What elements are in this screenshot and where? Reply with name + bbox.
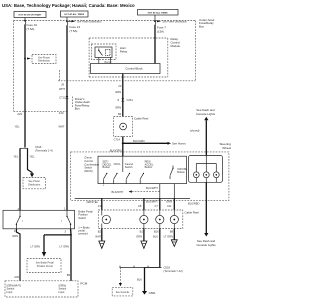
svg-text:Input: Input: [59, 290, 65, 294]
power label HOT AT ALL TIMES (left): [61, 11, 89, 17]
node: B pin labels: [95, 229, 173, 238]
svg-text:BLU/WHT: BLU/WHT: [146, 186, 158, 190]
node: driver's under-dash fuse/relay box label: [75, 97, 90, 111]
svg-text:(closed): (closed): [190, 129, 200, 133]
svg-text:Console Lights: Console Lights: [196, 112, 216, 116]
title: [2, 3, 135, 8]
svg-text:B16: B16: [154, 229, 159, 233]
horn switch pad S2: [189, 156, 223, 183]
svg-text:Console Lights: Console Lights: [196, 243, 216, 247]
node: brake pedal position switch label: [78, 210, 93, 236]
wire: C316 terminal to ref arrow: [28, 148, 36, 177]
svg-text:(15A): (15A): [157, 29, 164, 33]
switch SW2: [114, 173, 118, 184]
node: combination switch label: [84, 156, 99, 174]
node: under-hood fuse/relay box label: [199, 18, 215, 28]
switch SW4: [140, 173, 144, 184]
svg-text:GRN: GRN: [115, 105, 121, 109]
svg-text:USA: Base, Technology Package;: USA: Base, Technology Package; Hawaii; C…: [2, 3, 135, 8]
svg-text:Chime: Chime: [84, 156, 92, 160]
wire: brake switch 6 GRN to PCM: [12, 229, 20, 281]
wire: B2 out with arrow: [99, 229, 105, 249]
wire: brake switch 3 LT GRN to PCM: [31, 229, 72, 281]
svg-text:C714: C714: [114, 138, 121, 142]
horn button B1: [193, 172, 199, 182]
wire: B1 out with arrow: [141, 229, 147, 249]
svg-text:GRN: GRN: [166, 199, 172, 203]
svg-text:(Terminals 1-4): (Terminals 1-4): [35, 148, 53, 152]
wire: feed into switch box: [122, 156, 124, 172]
svg-text:(7.5A): (7.5A): [27, 27, 35, 31]
wire: BLK to ground: [137, 268, 160, 292]
svg-text:Control Block: Control Block: [125, 67, 143, 71]
svg-text:G501: G501: [149, 291, 156, 295]
svg-text:Position Circuit: Position Circuit: [37, 265, 53, 268]
svg-text:B8: B8: [170, 229, 174, 233]
node: see power distribution ref (lower): [23, 178, 46, 189]
svg-text:Switch: Switch: [84, 166, 92, 170]
control block U1: [91, 64, 161, 74]
svg-text:Cable Reel: Cable Reel: [185, 211, 200, 215]
svg-text:HOT AT ALL TIMES: HOT AT ALL TIMES: [148, 11, 168, 14]
switch: brake pedal sw B: [61, 210, 71, 229]
wire: fuse 7 down to control block: [154, 25, 156, 64]
svg-text:WHT: WHT: [95, 235, 101, 239]
wire: BLU/RED to see dash and console lights: [196, 182, 216, 247]
reel ring R2: [140, 210, 148, 229]
wire: B16 BLK down to C503: [159, 229, 161, 268]
svg-text:C8: C8: [138, 204, 142, 208]
svg-text:See Grounds: See Grounds: [116, 291, 130, 294]
svg-text:B1: B1: [140, 229, 144, 233]
cable reel (upper): [114, 117, 149, 137]
wire: control block pin 20 GRN down: [115, 74, 133, 117]
node: see dash and console lights (upper): [190, 108, 216, 155]
svg-text:WHT: WHT: [59, 87, 65, 91]
wire: C11 into cable reel: [173, 198, 175, 210]
svg-text:Button: Button: [145, 165, 153, 169]
svg-text:See Brake Pedal: See Brake Pedal: [36, 262, 54, 265]
wire: C7 into cable reel: [159, 198, 161, 210]
svg-text:PCM: PCM: [80, 282, 87, 286]
svg-text:Module: Module: [171, 44, 181, 48]
svg-text:See Power Distribution: See Power Distribution: [77, 21, 102, 24]
node: relay control module label: [171, 37, 181, 48]
svg-text:K10: K10: [59, 111, 64, 115]
svg-text:Distribution: Distribution: [38, 60, 51, 63]
svg-text:LT GRN: LT GRN: [164, 234, 174, 238]
wire: cable reel out to horns junction: [110, 137, 186, 157]
brake pedal position switch: [3, 210, 75, 229]
wire: B8 out with arrow: [171, 229, 177, 247]
svg-text:Switch: Switch: [78, 216, 86, 220]
connector C503 terminal bar: [120, 265, 183, 273]
svg-text:C11: C11: [167, 204, 172, 208]
reel ring R1: [102, 210, 111, 229]
relay: horn relay: [92, 44, 128, 64]
svg-text:20: 20: [118, 84, 121, 88]
svg-text:BLK/WHT: BLK/WHT: [112, 190, 124, 194]
relay control module dashed box: [89, 38, 168, 77]
svg-text:B9: B9: [67, 273, 71, 277]
power label HOT AT ALL TIMES (right): [138, 10, 179, 16]
svg-text:See Power Distribution: See Power Distribution: [163, 21, 188, 24]
svg-text:Switch: Switch: [125, 165, 133, 169]
svg-text:Relay: Relay: [120, 49, 128, 53]
ground G501: [142, 291, 156, 295]
wire: C316 terminal to brake switch: [13, 148, 20, 211]
svg-text:GRN/YEL: GRN/YEL: [87, 200, 99, 204]
svg-text:C713: C713: [59, 96, 66, 100]
wire: C503 spare terminals to see grounds: [112, 268, 133, 296]
svg-text:CNCL: CNCL: [114, 162, 122, 166]
fuse F13: [66, 17, 102, 33]
node: steering wheel dashed outline: [71, 142, 232, 200]
switch: brake pedal sw A: [16, 210, 24, 229]
fuse box outline: driver's under-dash fuse/relay box: [14, 21, 196, 112]
reel ring R3: [156, 210, 164, 229]
node: internal bus line: [75, 184, 190, 199]
svg-text:A29: A29: [17, 112, 22, 116]
svg-text:YEL: YEL: [30, 155, 36, 159]
svg-text:Control: Control: [84, 159, 93, 163]
svg-text:HOT IN ON OR START: HOT IN ON OR START: [19, 14, 43, 17]
horn button B2: [203, 172, 209, 182]
svg-text:Cable Reel: Cable Reel: [134, 117, 149, 121]
wire: C8 into cable reel: [143, 198, 145, 210]
svg-text:(7.5A): (7.5A): [70, 29, 78, 33]
wire: fuse 13 WHT down: [58, 25, 68, 210]
svg-text:C261: C261: [127, 98, 134, 102]
switch assembly box S1: [98, 156, 187, 183]
svg-text:Wheel: Wheel: [222, 146, 231, 150]
svg-text:BLK: BLK: [137, 278, 142, 282]
switch SW3: [126, 173, 130, 184]
node: see power distribution ref (fuse 16): [32, 55, 56, 64]
svg-text:YEL: YEL: [13, 155, 19, 159]
horn button B3: [213, 172, 219, 182]
svg-text:GRN: GRN: [136, 235, 142, 239]
svg-text:C316: C316: [35, 145, 42, 149]
fuse F7: [154, 15, 187, 33]
fuse F16: [24, 18, 37, 31]
svg-text:LT GRN: LT GRN: [31, 245, 41, 249]
svg-text:LT GRN: LT GRN: [60, 245, 70, 249]
wire: C16 into cable reel: [101, 198, 103, 210]
svg-text:BLU/RED: BLU/RED: [188, 201, 200, 205]
svg-text:Box: Box: [75, 107, 81, 111]
svg-text:HOT AT ALL TIMES: HOT AT ALL TIMES: [64, 13, 84, 16]
svg-text:B4: B4: [118, 112, 122, 116]
svg-text:GRN: GRN: [115, 90, 121, 94]
svg-text:BLK/GRN: BLK/GRN: [133, 139, 145, 143]
svg-text:A46: A46: [14, 275, 19, 279]
reel ring R4: [170, 210, 178, 229]
svg-text:YEL: YEL: [15, 125, 21, 129]
node: see brake pedal position circuit ref: [27, 259, 61, 273]
svg-text:Box: Box: [199, 24, 205, 28]
svg-text:Combination: Combination: [84, 162, 99, 166]
cable reel (lower): [98, 210, 199, 229]
svg-text:Distribution: Distribution: [28, 184, 41, 187]
node: PCM: [5, 281, 88, 297]
svg-text:Button: Button: [103, 165, 111, 169]
connector C316 split: [20, 145, 53, 153]
svg-text:Button: Button: [177, 170, 185, 174]
svg-text:B2: B2: [98, 229, 102, 233]
svg-text:WHT: WHT: [58, 124, 64, 128]
switch SW5 cruise: [170, 166, 174, 180]
svg-text:(MICS): (MICS): [84, 169, 92, 173]
wire: fuse 16 YEL down: [15, 24, 32, 147]
svg-text:BLU/WHT: BLU/WHT: [146, 199, 158, 203]
switch SW1: [104, 173, 108, 184]
power label HOT IN ON OR START: [14, 12, 46, 18]
svg-text:C7: C7: [155, 204, 159, 208]
svg-text:Input: Input: [7, 290, 13, 294]
node: switch labels row: [103, 160, 188, 174]
svg-text:(Terminals 7-12): (Terminals 7-12): [164, 269, 183, 273]
node: connector row labels below steering wheel: [87, 199, 200, 207]
svg-text:See Horns: See Horns: [172, 142, 186, 146]
svg-text:GRN: GRN: [12, 234, 18, 238]
svg-text:pressed: pressed: [78, 232, 88, 236]
svg-text:BLK: BLK: [153, 235, 158, 239]
svg-text:C503: C503: [164, 265, 171, 269]
